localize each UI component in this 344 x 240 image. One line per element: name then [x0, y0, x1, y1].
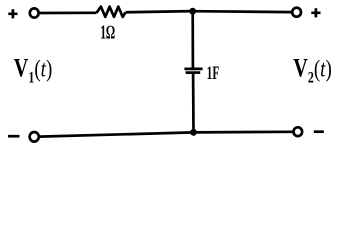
wire: bottom node to bottom-right terminal: [194, 130, 293, 133]
terminal top-left: [30, 8, 39, 17]
svg-text:V1(t): V1(t): [14, 54, 52, 86]
capacitor C (1F): [184, 69, 202, 73]
svg-text:1Ω: 1Ω: [100, 23, 115, 44]
minus sign bottom-right (V2 negative polarity): [314, 130, 324, 133]
wire: top node down to capacitor: [191, 11, 194, 68]
node: bottom junction (dot): [190, 129, 197, 136]
wire: top node to top-right terminal: [193, 10, 292, 14]
minus sign bottom-left (V1 negative polarity): [8, 135, 20, 138]
plus sign top-left (V1 positive polarity): [8, 9, 17, 18]
svg-text:V2(t): V2(t): [293, 54, 331, 86]
wire: resistor to top node: [126, 11, 193, 12]
node: top junction (dot): [189, 8, 196, 15]
resistor R (1 ohm): [97, 7, 126, 17]
terminal bottom-right: [294, 127, 303, 136]
label V1(t) port voltage left: [14, 54, 52, 86]
capacitor value label 1F: [207, 64, 220, 84]
resistor value label 1Ω: [100, 23, 115, 44]
wire: bottom-left terminal to bottom node: [40, 132, 194, 136]
terminal top-right: [292, 8, 301, 17]
wire: top-left terminal to resistor: [39, 11, 97, 14]
wire: capacitor to bottom node: [192, 74, 195, 133]
plus sign top-right (V2 positive polarity): [311, 8, 320, 17]
svg-text:1F: 1F: [207, 64, 220, 84]
terminal bottom-left: [30, 132, 39, 142]
label V2(t) port voltage right: [293, 54, 331, 86]
